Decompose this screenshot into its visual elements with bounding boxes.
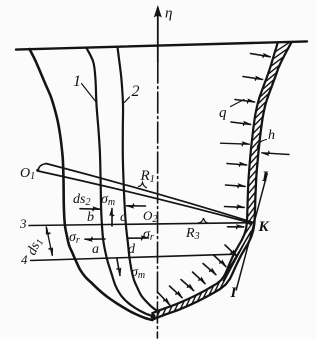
dimension ds1 double arrow [46, 227, 47, 231]
pressure arrow q8 [228, 226, 244, 228]
convergence knot [150, 314, 155, 319]
stress arrow b right [80, 208, 100, 211]
svg-text:2: 2 [132, 83, 140, 100]
parallel line 4 [31, 254, 236, 260]
node K point [248, 221, 252, 225]
pressure arrow q5 [227, 164, 247, 166]
stress arrow c left [127, 205, 146, 207]
parallel line 3 through O2 to K [29, 223, 252, 226]
radius R1 upper line from O1 to K [46, 164, 252, 222]
label q leader [231, 100, 245, 107]
pressure arrow b7 [158, 292, 170, 305]
pressure arrow b1 [225, 245, 237, 257]
shell inner edge [152, 43, 277, 313]
pressure arrow b2 [214, 255, 226, 267]
svg-text:σr: σr [143, 227, 154, 243]
pressure arrow q3 [235, 100, 255, 103]
curve outer meridian [30, 49, 153, 320]
svg-text:h: h [268, 128, 275, 143]
pressure arrow q7 [225, 206, 245, 209]
label 1 leader [82, 84, 96, 102]
svg-text:q: q [219, 105, 227, 121]
pressure arrow b6 [170, 286, 183, 298]
svg-text:c: c [120, 210, 127, 225]
svg-text:η: η [165, 6, 172, 22]
svg-text:b: b [87, 210, 94, 225]
R1 brace tick [139, 183, 147, 188]
wire top boundary line [16, 41, 307, 49]
svg-text:I: I [230, 285, 238, 301]
radius R1 lower line from O1 to K [38, 171, 252, 223]
stress arrow sigma-r right (element d) [129, 237, 149, 239]
svg-text:σr: σr [69, 230, 80, 246]
pressure arrow q4 [231, 122, 251, 124]
svg-text:R3: R3 [185, 226, 200, 242]
svg-text:O1: O1 [20, 166, 35, 182]
label 2 leader [124, 97, 129, 103]
pressure arrow q2 [243, 77, 263, 80]
dimension h left arrow [221, 143, 250, 144]
stress arrow sigma-r left (element a) [85, 238, 105, 240]
pressure arrow q1 [251, 54, 271, 57]
shell outer edge [154, 42, 291, 319]
curve meridian 2 [118, 47, 158, 311]
svg-text:σm: σm [101, 192, 115, 208]
svg-text:σm: σm [131, 265, 145, 281]
svg-text:d: d [128, 242, 136, 257]
svg-text:4: 4 [21, 252, 28, 267]
section line I-I through K [236, 174, 267, 291]
svg-text:ds2: ds2 [73, 192, 90, 208]
O1 point [36, 169, 39, 172]
svg-text:R1: R1 [140, 168, 155, 185]
R3 brace tick [199, 218, 209, 223]
stress arrow sigma-m up (element bc) [111, 209, 113, 227]
pressure arrow b4 [193, 272, 206, 284]
pressure arrow q6 [226, 185, 246, 186]
pressure arrow b3 [203, 264, 216, 275]
curve meridian 1 [87, 48, 154, 316]
svg-text:O2: O2 [143, 208, 157, 225]
svg-text:1: 1 [73, 73, 81, 90]
pressure arrow b5 [181, 280, 194, 291]
node eta axis [157, 8, 159, 62]
svg-text:3: 3 [19, 216, 27, 231]
node eta axis arrowhead [154, 5, 162, 18]
dimension h right arrow [262, 153, 289, 155]
stress arrow sigma-m down (below line 4) [117, 258, 120, 276]
dimension h leader [257, 140, 266, 148]
svg-text:a: a [92, 242, 99, 257]
svg-text:K: K [258, 219, 270, 235]
O1 hook [38, 164, 46, 171]
svg-text:ds1: ds1 [24, 236, 46, 259]
shell hatching [156, 42, 289, 318]
svg-text:I: I [261, 169, 269, 185]
